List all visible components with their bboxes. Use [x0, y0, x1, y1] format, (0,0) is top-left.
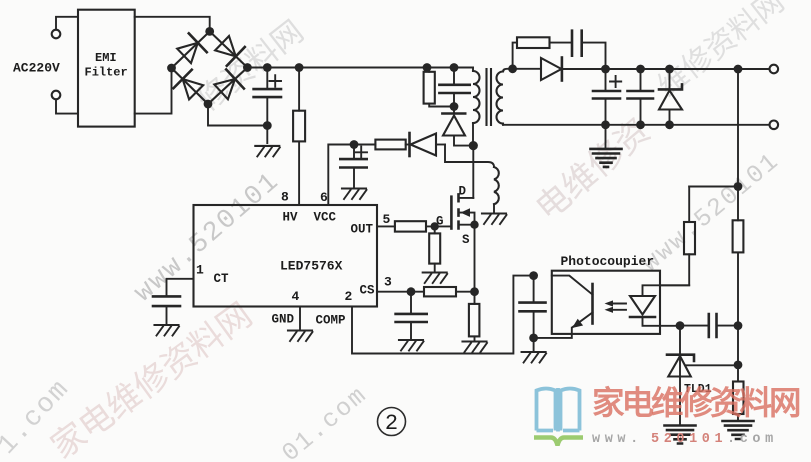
bridge diode D2 (top-right edge) — [215, 36, 245, 66]
svg-text:GND: GND — [272, 313, 295, 327]
resistor R6 (CS filter) — [424, 287, 475, 296]
node output rail at C8 — [636, 65, 645, 74]
node opto emitter — [529, 334, 538, 343]
svg-text:Photocoupier: Photocoupier — [561, 254, 655, 269]
wire bridge bottom to cap negative — [208, 104, 267, 126]
svg-text:2: 2 — [385, 411, 398, 436]
resistor R3 (VCC series) — [375, 140, 408, 150]
svg-text:www.520101: www.520101 — [129, 167, 286, 309]
ground below C4 — [155, 325, 180, 336]
wire source to CS node — [474, 225, 476, 292]
capacitor C3 (VCC) — [340, 145, 367, 188]
resistor R11 (divider lower) — [733, 365, 744, 421]
wire TLD1 reference — [686, 364, 739, 366]
zener ZD1 (output clamp) — [659, 69, 682, 125]
node CS sense — [470, 287, 479, 296]
wire output bottom rail — [503, 124, 770, 126]
resistor R7 (sense) — [469, 292, 480, 341]
regulator TLD1 (shunt ref) — [667, 326, 694, 425]
logo book swoosh — [534, 438, 583, 446]
transformer core — [487, 69, 492, 125]
ground below R11 (earth) — [723, 421, 754, 439]
node source — [470, 221, 478, 229]
svg-text:CT: CT — [214, 272, 230, 286]
op IC U1 LED7576X — [194, 205, 378, 307]
node bus at clamp R2 — [423, 63, 432, 72]
wire COMP feedback — [352, 276, 534, 354]
node bridge bottom — [204, 100, 213, 109]
svg-text:01.com: 01.com — [277, 380, 374, 462]
capacitor C5 (CS) — [396, 292, 427, 340]
ground secondary (earth) — [591, 149, 622, 167]
svg-text:CS: CS — [360, 284, 376, 298]
wire drain riser — [472, 146, 474, 198]
svg-text:Filter: Filter — [85, 66, 128, 80]
capacitor C8 (output) — [628, 69, 654, 125]
ground below aux winding — [482, 214, 507, 225]
svg-text:4: 4 — [292, 289, 300, 304]
node secondary top — [508, 64, 517, 73]
wire EMI top to bridge top — [135, 17, 210, 27]
svg-text:www.520101: www.520101 — [637, 147, 786, 279]
svg-text:LED7576X: LED7576X — [280, 259, 343, 274]
logo book icon — [537, 388, 580, 432]
svg-text:1: 1 — [196, 263, 204, 278]
capacitor C6 (secondary snubber) — [572, 31, 606, 65]
EMI filter box — [78, 10, 135, 127]
diode opto LED — [630, 285, 689, 326]
capacitor C10 (opto filter) — [520, 276, 546, 338]
ground below R7 — [463, 342, 488, 353]
node gate — [431, 222, 439, 230]
node bottom rail at C8 — [636, 120, 645, 129]
transformer primary winding — [473, 68, 480, 142]
svg-text:HV: HV — [283, 211, 299, 225]
wire C7 to secondary ground — [605, 125, 607, 148]
terminal output plus — [770, 65, 779, 74]
node opto collector — [529, 271, 538, 280]
ground below C3 — [342, 189, 367, 200]
op photocoupler box — [552, 271, 660, 334]
node output rail at C7 — [601, 65, 610, 74]
node bottom rail at C7 — [601, 120, 610, 129]
wire AC bottom to EMI — [56, 99, 78, 113]
svg-text:电维修资: 电维修资 — [529, 112, 660, 231]
svg-text:8: 8 — [281, 190, 289, 205]
wire VCC pin riser — [328, 145, 375, 206]
bridge diode D4 (bottom-right edge) — [214, 69, 244, 99]
wire emitter to ground — [533, 338, 535, 352]
node VCC — [350, 140, 359, 149]
svg-text:OUT: OUT — [351, 223, 374, 237]
figure number 2 circled — [378, 408, 406, 437]
resistor R10 (divider upper) — [733, 187, 744, 365]
ground below opto (777) — [522, 352, 547, 363]
node bus at clamp C2 — [450, 63, 459, 72]
node bridge left — [167, 64, 176, 73]
transformer aux winding — [445, 145, 499, 213]
wire GND pin — [299, 307, 301, 331]
ground below TLD1 (earth) — [665, 426, 696, 444]
svg-text:6: 6 — [320, 190, 328, 205]
svg-text:VCC: VCC — [314, 211, 337, 225]
resistor R9 (opto feed) — [660, 187, 695, 286]
node divider at C9 — [734, 321, 743, 330]
svg-text:2: 2 — [345, 289, 353, 304]
svg-text:AC220V: AC220V — [13, 61, 60, 76]
terminal AC input bottom — [52, 91, 61, 100]
ground below C5 — [399, 340, 424, 351]
node bridge right — [243, 63, 252, 72]
ground below GND pin — [288, 331, 313, 342]
terminal output minus — [770, 121, 779, 130]
bridge diode D3 (bottom-left edge) — [174, 70, 204, 100]
wire to opto feed resistor — [689, 186, 738, 188]
node bus at R1 — [295, 63, 304, 72]
node bottom rail at ZD1 — [665, 120, 674, 129]
resistor R5 (gate pulldown) — [429, 226, 440, 272]
diode D7 (output rectifier) — [513, 58, 770, 81]
wire DC bus — [247, 67, 473, 69]
ground below C1 — [255, 146, 280, 157]
resistor R1 (HV feed) — [293, 68, 305, 206]
wire AC top to EMI — [56, 17, 78, 30]
svg-text:EMI: EMI — [95, 51, 117, 65]
svg-text:.com: .com — [727, 432, 778, 447]
svg-text:家电维修资料网: 家电维修资料网 — [44, 296, 261, 462]
wire EMI bottom to bridge left — [135, 72, 172, 114]
svg-text:COMP: COMP — [316, 314, 346, 328]
bridge diamond wiring — [172, 31, 248, 104]
svg-text:S: S — [462, 233, 470, 247]
capacitor C1 (bulk) — [254, 68, 281, 144]
node bus at C1 — [263, 63, 272, 72]
svg-text:www.: www. — [592, 432, 643, 447]
svg-text:520101: 520101 — [651, 432, 727, 447]
node drain — [469, 141, 478, 150]
node output rail at ZD1 — [665, 65, 674, 74]
node C1 negative — [263, 121, 272, 130]
transistor opto phototransistor — [534, 276, 593, 338]
wire CS pin — [377, 291, 424, 293]
svg-text:5: 5 — [383, 212, 391, 227]
capacitor C4 (CT) — [153, 296, 180, 324]
diode D5 (clamp) — [442, 107, 473, 146]
ground below R5 — [423, 273, 448, 284]
svg-text:家电维修资料网: 家电维修资料网 — [592, 385, 800, 424]
node divider mid — [734, 361, 743, 370]
node TLD1 cathode — [676, 321, 685, 330]
node output rail at divider tap — [734, 65, 743, 74]
resistor R2 (clamp) — [424, 68, 454, 107]
wire OUT pin — [377, 225, 395, 227]
terminal AC input top — [52, 30, 61, 39]
node bridge top — [205, 27, 214, 36]
bridge diode D1 (left-top edge) — [177, 33, 207, 63]
capacitor C2 (clamp) — [439, 68, 469, 107]
capacitor C7 (output bulk) — [593, 69, 621, 125]
wire CT pin — [167, 279, 194, 297]
diode D6 (VCC rectifier) — [410, 133, 446, 156]
opto light arrows — [605, 300, 627, 313]
node clamp junction — [450, 102, 459, 111]
capacitor C9 (feedback comp) — [680, 314, 738, 337]
transistor Q1 (MOSFET) — [451, 194, 474, 228]
svg-text:3: 3 — [384, 275, 392, 290]
wire divider riser — [737, 69, 739, 187]
transformer secondary winding — [497, 69, 513, 125]
resistor R8 (secondary snubber) — [513, 37, 572, 69]
node divider top — [734, 182, 743, 191]
node CS — [407, 287, 416, 296]
resistor R4 (gate series) — [395, 221, 452, 231]
